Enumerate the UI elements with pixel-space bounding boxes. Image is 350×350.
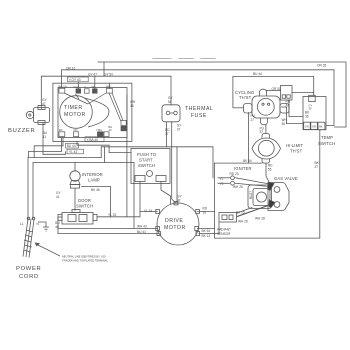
wire door switch left drop <box>58 217 62 234</box>
wire buzzer bottom BU41 <box>43 123 66 155</box>
svg-text:41: 41 <box>56 195 60 199</box>
wire GY47 buzzer to thermal fuse <box>41 76 171 108</box>
svg-text:GN: GN <box>305 125 309 129</box>
temp switch <box>303 95 326 129</box>
wire heater to temp switch top <box>292 92 314 94</box>
svg-text:37: 37 <box>177 128 181 132</box>
thermal fuse <box>162 105 180 122</box>
wire stub x104 <box>103 62 105 76</box>
svg-text:LAMP: LAMP <box>88 178 100 183</box>
wire igniter to valve upper <box>236 178 269 184</box>
svg-text:27: 27 <box>251 118 255 122</box>
svg-text:36: 36 <box>305 114 309 118</box>
svg-text:BU: BU <box>59 128 63 132</box>
hi-limit thermostat <box>252 133 281 163</box>
wire BU41 bottom to motor <box>58 233 159 235</box>
svg-text:IGNITER: IGNITER <box>234 166 252 171</box>
svg-text:Y-GY 43: Y-GY 43 <box>69 78 81 82</box>
svg-text:WH 26: WH 26 <box>238 220 248 224</box>
svg-text:YL 34: YL 34 <box>144 209 152 213</box>
wire BK37 temp switch down right edge of burner box <box>215 130 320 238</box>
wire RD42 heater drop to temp switch <box>289 100 303 117</box>
wire WH36 cycling right to temp switch <box>282 107 304 124</box>
svg-text:BK 25: BK 25 <box>236 211 245 215</box>
buzzer <box>26 106 49 125</box>
svg-text:BU 44: BU 44 <box>253 72 262 76</box>
svg-text:50: 50 <box>168 100 172 104</box>
wire timer BU44 bottom <box>34 138 63 158</box>
svg-text:WH 26: WH 26 <box>233 185 243 189</box>
svg-text:MOTOR: MOTOR <box>64 112 86 118</box>
wire outer top bus <box>98 62 346 127</box>
svg-text:GY 47: GY 47 <box>88 73 97 77</box>
svg-text:BU 44: BU 44 <box>67 144 76 148</box>
svg-text:Y-BA: Y-BA <box>96 128 102 132</box>
svg-text:WH: WH <box>106 85 110 89</box>
wire BU44 branch to cycling thermostat <box>233 107 244 109</box>
svg-text:42: 42 <box>177 199 181 203</box>
svg-text:WH 28: WH 28 <box>255 217 265 221</box>
igniter terminals <box>231 176 235 185</box>
wire igniter feed horizontal <box>101 147 213 178</box>
svg-text:BK 54: BK 54 <box>243 159 252 163</box>
svg-text:GY 50: GY 50 <box>104 73 113 77</box>
svg-text:SWITCH: SWITCH <box>318 141 335 146</box>
svg-text:Y-BA 40: Y-BA 40 <box>87 138 99 142</box>
svg-text:40: 40 <box>55 225 59 229</box>
svg-text:TRACER AND TIN PLATED TERMINAL: TRACER AND TIN PLATED TERMINAL <box>62 259 109 263</box>
wire RD35 motor to burner box <box>198 211 215 213</box>
boxed wire labels <box>66 77 105 154</box>
wire push-start right to motor <box>161 182 171 205</box>
svg-text:BK 54: BK 54 <box>202 229 211 233</box>
timer terminals top <box>59 88 126 136</box>
svg-text:SWITCH: SWITCH <box>138 163 155 168</box>
wire radiant sensor to valve lower WH28 <box>237 205 270 217</box>
svg-text:55: 55 <box>268 167 272 171</box>
wire stub terminal Y-GY <box>77 82 79 89</box>
neutral note arrow <box>35 243 61 257</box>
svg-text:BK GN: BK GN <box>59 85 67 89</box>
timer motor block <box>58 88 127 138</box>
wire BK54 motor right <box>198 228 215 230</box>
svg-text:GN: GN <box>74 128 78 132</box>
svg-text:RD 23: RD 23 <box>230 172 239 176</box>
svg-text:TH'ST: TH'ST <box>290 149 303 154</box>
svg-text:L1: L1 <box>20 222 24 226</box>
wire N bus <box>33 163 134 219</box>
svg-text:TIMER: TIMER <box>64 105 83 111</box>
wire stub L1 to WH line <box>100 147 102 158</box>
interior lamp <box>70 171 80 188</box>
svg-text:BUZZER: BUZZER <box>8 128 35 134</box>
wire stub N to WH line <box>104 147 106 163</box>
svg-text:CORD: CORD <box>19 274 39 280</box>
drive motor <box>156 202 200 246</box>
power cord <box>23 217 35 257</box>
wire BK54 burner box top <box>215 162 263 164</box>
heater terminal block <box>281 86 293 101</box>
svg-text:WH 43: WH 43 <box>137 225 147 229</box>
svg-text:TH'ST: TH'ST <box>239 95 252 100</box>
svg-text:BK 13: BK 13 <box>202 234 211 238</box>
wire PU37 cycling to hi-limit <box>265 125 267 134</box>
wire lamp to door switch GY41 <box>74 189 76 211</box>
wire second motor top feed <box>176 147 178 203</box>
radiant sensor <box>219 213 237 223</box>
svg-text:OR 35: OR 35 <box>317 64 326 68</box>
svg-text:DOOR: DOOR <box>78 198 91 203</box>
timer pointer <box>84 98 109 127</box>
svg-text:RADIANT: RADIANT <box>217 228 231 232</box>
svg-text:OR: OR <box>312 125 316 129</box>
svg-text:Y2: Y2 <box>220 182 224 186</box>
svg-text:TEMP: TEMP <box>321 135 333 140</box>
wire push-start left drop YL34 <box>139 182 141 212</box>
wire BK13 motor to radiant sensor <box>199 222 219 234</box>
timer internal pointer lines <box>64 93 123 122</box>
wire Y-BA timer bottom to push-start <box>77 142 131 153</box>
door switch <box>58 210 97 225</box>
wire stub terminal WH <box>108 83 110 88</box>
gas valve <box>248 182 289 210</box>
wire OR10 top bus <box>61 70 334 126</box>
svg-text:SWITCH: SWITCH <box>76 204 93 209</box>
svg-text:37: 37 <box>260 130 264 134</box>
svg-text:41: 41 <box>43 135 47 139</box>
svg-text:YL: YL <box>220 177 224 181</box>
wire door switch YL33 to motor <box>97 212 157 217</box>
svg-text:START: START <box>139 158 153 163</box>
svg-text:Y: Y <box>84 85 86 89</box>
svg-text:37: 37 <box>315 165 319 169</box>
wire RD37 fuse drop <box>166 122 168 147</box>
wire timer YL43 bottom <box>29 138 62 158</box>
wire lamp feed <box>74 163 76 172</box>
push to start switch <box>131 148 170 183</box>
svg-text:OR 31: OR 31 <box>272 87 281 91</box>
wire BU44 bus to temp switch <box>233 76 314 107</box>
timer outer box <box>53 83 132 141</box>
wire PU27 cycling to burner box <box>248 113 250 164</box>
wire igniter stubs <box>218 177 230 179</box>
svg-text:SENSOR: SENSOR <box>217 232 231 236</box>
svg-text:BU27: BU27 <box>249 191 253 199</box>
svg-text:POWER: POWER <box>16 266 41 272</box>
svg-text:YL 43: YL 43 <box>69 150 77 154</box>
svg-text:35: 35 <box>203 211 207 215</box>
svg-text:37: 37 <box>165 132 169 136</box>
wire radiant sensor to valve BK25 <box>237 208 252 214</box>
wire WH43 bottom to motor <box>58 227 157 229</box>
svg-text:36: 36 <box>282 122 286 126</box>
svg-text:YL 33: YL 33 <box>108 213 116 217</box>
cycling thermostat <box>244 89 290 125</box>
wire WH43 timer right drop <box>126 95 128 217</box>
svg-text:THERMAL: THERMAL <box>185 106 213 112</box>
svg-text:BU 41: BU 41 <box>137 230 146 234</box>
svg-text:GAS VALVE: GAS VALVE <box>274 176 298 181</box>
svg-text:DRIVE: DRIVE <box>165 218 183 224</box>
svg-text:BK 45: BK 45 <box>91 188 100 192</box>
wire BK45 lamp right <box>82 187 111 217</box>
svg-text:N: N <box>37 222 40 226</box>
svg-text:BK: BK <box>319 125 323 129</box>
svg-text:Y-GY: Y-GY <box>73 85 79 89</box>
svg-text:MOTOR: MOTOR <box>164 225 186 231</box>
svg-text:A2: A2 <box>286 103 290 107</box>
timer motor cam circle <box>60 96 93 129</box>
svg-text:NEUTRAL LINE IDENTIFIED BY .01: NEUTRAL LINE IDENTIFIED BY .015 <box>62 255 106 259</box>
svg-text:PUSH TO: PUSH TO <box>137 152 157 157</box>
svg-text:OR 10: OR 10 <box>66 66 75 70</box>
svg-text:OR: OR <box>91 85 95 89</box>
wire hi-limit to gas valve <box>266 163 270 183</box>
scan artifact dashes <box>153 58 215 60</box>
ground symbol <box>38 222 49 231</box>
svg-text:FUSE: FUSE <box>191 113 207 119</box>
wire stub terminal GY50 <box>94 76 96 89</box>
wire GY37 fuse to motor top <box>172 122 176 203</box>
svg-text:43: 43 <box>130 104 134 108</box>
wire N drop right <box>133 163 135 229</box>
svg-text:47: 47 <box>42 102 46 106</box>
wire OR31 cycling top to heater terminals <box>266 90 281 92</box>
wire L1 bus <box>28 158 101 219</box>
svg-text:HI-LIMIT: HI-LIMIT <box>286 143 303 148</box>
motor terminal bumps <box>156 210 160 214</box>
wire burner box left edge <box>214 163 216 238</box>
svg-text:INTERIOR: INTERIOR <box>82 172 103 177</box>
